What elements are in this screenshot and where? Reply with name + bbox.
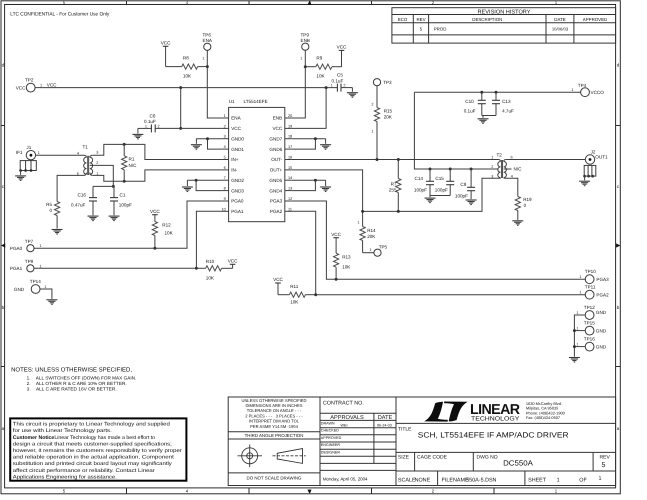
svg-text:R15: R15 xyxy=(384,109,393,114)
svg-text:1: 1 xyxy=(491,156,493,160)
svg-text:20: 20 xyxy=(288,114,292,118)
ground pins 14,13 GND5 GND4 xyxy=(292,179,331,192)
svg-text:R19: R19 xyxy=(523,197,532,202)
svg-text:DC550A: DC550A xyxy=(503,458,533,467)
power VCC at R13 xyxy=(331,232,341,238)
svg-text:GND4: GND4 xyxy=(269,188,282,193)
svg-text:1. ALL SWITCHES OFF (DOWN): 1. ALL SWITCHES OFF (DOWN) FOR MAX GAIN. xyxy=(27,375,137,380)
svg-text:DRAWN: DRAWN xyxy=(321,421,335,425)
resistor R8 xyxy=(166,56,208,79)
ground at C14 C15 xyxy=(425,196,436,203)
wire T2 pin6 to OUT1 xyxy=(506,159,586,161)
svg-text:ENB: ENB xyxy=(273,116,282,121)
svg-text:R10: R10 xyxy=(206,259,215,264)
U1 pin stubs left xyxy=(222,118,229,211)
ground pins 18,17 GND7 GND6 xyxy=(292,137,331,149)
middle col rows xyxy=(320,412,396,414)
svg-text:1: 1 xyxy=(576,343,578,347)
svg-text:b: b xyxy=(617,305,620,310)
svg-text:a: a xyxy=(2,426,5,431)
svg-text:R14: R14 xyxy=(367,228,376,233)
ground at TP14 xyxy=(40,289,57,304)
svg-text:16: 16 xyxy=(288,156,292,160)
svg-text:ENA: ENA xyxy=(231,116,241,121)
svg-text:1: 1 xyxy=(44,285,46,289)
svg-text:C15: C15 xyxy=(435,176,444,181)
wire PGA2 pin11 to TP11 xyxy=(292,211,586,294)
svg-text:ECO: ECO xyxy=(398,17,408,22)
svg-text:PROD: PROD xyxy=(434,27,447,32)
svg-text:1: 1 xyxy=(38,151,40,155)
svg-text:2: 2 xyxy=(432,489,435,494)
center arrows on borders xyxy=(1,243,5,247)
wire T1 pin6 to R5 xyxy=(57,175,83,201)
testpoint TP11 PGA2 xyxy=(579,285,609,299)
size row dividers xyxy=(414,452,416,471)
svg-text:LT5514EFE: LT5514EFE xyxy=(244,99,268,104)
svg-text:substitution and printed circu: substitution and printed circuit board l… xyxy=(13,461,172,467)
ground pins 3,4 GND0 GND1 xyxy=(191,137,222,149)
svg-text:2. ALL OTHER R & C ARE 10%: 2. ALL OTHER R & C ARE 10% OR BETTER. xyxy=(27,381,127,386)
svg-text:17: 17 xyxy=(288,145,292,149)
wire PGA3 pin12 to TP10 xyxy=(292,201,586,279)
svg-text:GND3: GND3 xyxy=(231,188,244,193)
svg-text:R11: R11 xyxy=(290,284,299,289)
svg-text:R7: R7 xyxy=(391,181,397,186)
node center tap to caps xyxy=(112,185,115,188)
svg-text:TITLE: TITLE xyxy=(398,426,412,432)
testpoint TP6 ENA xyxy=(202,33,213,61)
revision history table xyxy=(392,8,616,43)
svg-text:DO NOT SCALE DRAWING: DO NOT SCALE DRAWING xyxy=(247,476,302,481)
wire cap top rail xyxy=(93,185,114,187)
title block left column texts xyxy=(242,398,307,481)
U1 left pin numbers xyxy=(222,114,226,211)
ground at C16 xyxy=(88,216,99,221)
svg-text:12: 12 xyxy=(288,197,292,201)
svg-text:3: 3 xyxy=(224,135,226,139)
wire TP6 to U1 pin 1 xyxy=(207,50,221,118)
svg-text:TP6: TP6 xyxy=(203,33,212,38)
node TP16 junction xyxy=(573,345,576,348)
svg-text:1: 1 xyxy=(40,84,42,88)
testpoint TP8 PGA1 xyxy=(10,259,42,272)
svg-text:0.1uF: 0.1uF xyxy=(464,108,476,113)
svg-text:Fax: (408)434-0507: Fax: (408)434-0507 xyxy=(526,415,560,420)
resistor R1 xyxy=(122,144,137,181)
resistor R10 xyxy=(196,259,232,280)
svg-text:a: a xyxy=(617,426,620,431)
svg-text:0.1uF: 0.1uF xyxy=(332,78,344,83)
ground at C10 C13 xyxy=(478,116,489,124)
svg-text:19: 19 xyxy=(288,124,292,128)
svg-text:ENA: ENA xyxy=(203,38,213,43)
svg-text:13: 13 xyxy=(288,187,292,191)
wire VCC branch down to pin 2 xyxy=(180,88,182,129)
svg-text:3: 3 xyxy=(96,151,98,155)
ground at C6 xyxy=(132,128,143,139)
svg-text:15: 15 xyxy=(288,166,292,170)
wire J1 to T1 pin 4 xyxy=(36,154,84,156)
svg-text:R8: R8 xyxy=(183,56,189,61)
svg-text:REV: REV xyxy=(600,454,611,460)
svg-text:0.47uF: 0.47uF xyxy=(71,202,85,207)
svg-text:100pF: 100pF xyxy=(414,187,427,192)
testpoint TP3 xyxy=(373,79,392,86)
svg-text:SCH, LT5514EFE IF AMP/ADC DRIV: SCH, LT5514EFE IF AMP/ADC DRIVER xyxy=(418,431,569,440)
svg-text:10K: 10K xyxy=(290,300,299,305)
title block grid xyxy=(228,397,615,486)
svg-text:PGA2: PGA2 xyxy=(596,293,609,298)
svg-text:2: 2 xyxy=(371,103,373,107)
svg-text:PGA1: PGA1 xyxy=(231,209,244,214)
svg-text:0: 0 xyxy=(49,208,52,213)
svg-text:R13: R13 xyxy=(342,255,351,260)
node C10 on VCCO rail xyxy=(480,91,483,94)
svg-text:10K: 10K xyxy=(206,275,215,280)
svg-text:4.7uF: 4.7uF xyxy=(502,108,514,113)
wire C14 C15 bottoms xyxy=(430,195,450,197)
ground pins 7,8 GND2 GND3 xyxy=(182,179,222,192)
wire TP8 to U1 pin 10 xyxy=(34,211,222,268)
svg-text:PGA0: PGA0 xyxy=(10,246,23,251)
svg-text:LTC CONFIDENTIAL - For Custome: LTC CONFIDENTIAL - For Customer Use Only xyxy=(10,11,109,17)
U1 left pin labels xyxy=(231,116,244,214)
svg-text:TP10: TP10 xyxy=(585,269,596,274)
svg-text:PGA3: PGA3 xyxy=(596,277,609,282)
wire T1 pin3 to IN+ xyxy=(93,144,222,159)
svg-text:d: d xyxy=(617,63,620,68)
svg-text:1: 1 xyxy=(557,477,560,483)
svg-text:NONE: NONE xyxy=(415,477,431,483)
svg-text:N/C: N/C xyxy=(514,167,523,172)
svg-text:3. ALL C ARE RATED 16V OR B: 3. ALL C ARE RATED 16V OR BETTER. xyxy=(27,386,117,391)
ground at C9 xyxy=(466,200,477,205)
svg-text:3: 3 xyxy=(491,175,493,179)
svg-text:DESIGNER: DESIGNER xyxy=(321,450,341,454)
linear technology logo xyxy=(424,402,520,423)
svg-text:GND5: GND5 xyxy=(269,178,282,183)
svg-text:SIZE: SIZE xyxy=(398,454,410,460)
svg-text:10K: 10K xyxy=(183,74,192,79)
svg-text:2: 2 xyxy=(224,124,226,128)
testpoint TP15 GND xyxy=(576,321,606,335)
power VCC at R9 xyxy=(337,44,347,66)
svg-text:TP3: TP3 xyxy=(383,80,392,85)
svg-text:APPROVED: APPROVED xyxy=(321,436,342,440)
svg-text:5: 5 xyxy=(602,462,606,469)
svg-text:This circuit is proprietary to: This circuit is proprietary to Linear Te… xyxy=(13,422,170,428)
svg-text:1: 1 xyxy=(145,124,147,128)
connector J1 IF1 input xyxy=(16,145,37,172)
ground at C5 xyxy=(347,88,358,98)
svg-text:TP12: TP12 xyxy=(584,305,595,310)
svg-text:R12: R12 xyxy=(162,223,171,228)
svg-text:2: 2 xyxy=(491,165,493,169)
svg-text:TP7: TP7 xyxy=(25,239,34,244)
U1 right pin labels xyxy=(269,116,282,214)
U1 pin stubs right xyxy=(285,118,292,211)
svg-text:TP8: TP8 xyxy=(25,259,34,264)
ground at TP bus xyxy=(569,358,580,363)
svg-text:ENB: ENB xyxy=(301,38,310,43)
svg-text:N/C: N/C xyxy=(129,163,138,168)
resistor R11 xyxy=(278,283,316,305)
svg-text:T2: T2 xyxy=(497,153,503,158)
svg-text:GND2: GND2 xyxy=(231,178,244,183)
node TP15 junction xyxy=(573,329,576,332)
resistor R12 xyxy=(152,215,173,249)
resistor R14 xyxy=(357,211,376,252)
svg-text:5: 5 xyxy=(420,27,423,32)
wire T1 pin2 center tap down xyxy=(93,165,114,186)
zone letters left xyxy=(2,63,5,431)
svg-text:VCC: VCC xyxy=(16,85,26,90)
svg-text:however, it remains the custom: however, it remains the customers respon… xyxy=(13,448,182,454)
third angle projection symbol xyxy=(238,445,306,468)
svg-text:and reliable operation in the: and reliable operation in the actual app… xyxy=(13,455,175,461)
svg-text:THIRD ANGLE PROJECTION: THIRD ANGLE PROJECTION xyxy=(245,433,304,438)
svg-text:R9: R9 xyxy=(316,56,322,61)
node R11 on PGA2 line xyxy=(314,293,317,296)
svg-text:14: 14 xyxy=(288,176,292,180)
svg-text:DATE: DATE xyxy=(554,17,565,22)
left col rows xyxy=(228,431,320,433)
svg-text:WEI: WEI xyxy=(341,424,348,428)
node R7 bottom on lower rail xyxy=(397,210,400,213)
svg-text:VCC: VCC xyxy=(228,259,238,264)
svg-text:GND: GND xyxy=(596,344,607,349)
ground at J1 xyxy=(15,171,26,181)
U1 right pin numbers xyxy=(288,114,292,211)
node R8 to ENA junction xyxy=(206,65,209,68)
svg-text:DATE: DATE xyxy=(378,415,393,421)
svg-text:VCC: VCC xyxy=(337,44,347,49)
svg-text:1: 1 xyxy=(40,264,42,268)
ground at R19 xyxy=(512,221,523,226)
svg-text:TP2: TP2 xyxy=(25,78,34,83)
svg-text:VCC: VCC xyxy=(272,126,282,131)
svg-text:OUT+: OUT+ xyxy=(270,168,283,173)
svg-text:20K: 20K xyxy=(384,115,393,120)
capacitor C10 xyxy=(464,92,486,115)
svg-text:b: b xyxy=(2,305,5,310)
svg-text:10K: 10K xyxy=(342,265,351,270)
svg-text:Customer NoticeLinear Technolo: Customer NoticeLinear Technology has mad… xyxy=(13,435,155,441)
testpoint TP7 PGA0 xyxy=(10,239,42,252)
op-amp U1 LT5514EFE body xyxy=(229,99,285,222)
svg-text:1: 1 xyxy=(357,221,359,225)
svg-text:Applications Engineering for a: Applications Engineering for assistance. xyxy=(13,474,117,480)
svg-text:OF: OF xyxy=(579,477,587,483)
power VCC at R12 xyxy=(150,209,160,215)
svg-text:PER ASME Y14.5M -1994: PER ASME Y14.5M -1994 xyxy=(250,424,298,429)
ground at C1 xyxy=(109,216,120,221)
svg-text:APPROVED: APPROVED xyxy=(583,17,607,22)
ground at R5 xyxy=(52,230,63,235)
svg-text:1: 1 xyxy=(40,244,42,248)
svg-text:11: 11 xyxy=(288,207,292,211)
resistor R15 xyxy=(371,86,392,160)
svg-text:NOTES: UNLESS OTHERWISE SPECIF: NOTES: UNLESS OTHERWISE SPECIFIED, xyxy=(11,367,132,374)
capacitor C5 xyxy=(331,73,353,92)
svg-text:SCALE: SCALE xyxy=(398,477,416,483)
svg-text:0: 0 xyxy=(524,203,527,208)
svg-text:7: 7 xyxy=(224,176,226,180)
svg-text:255: 255 xyxy=(389,187,397,192)
svg-text:TP4: TP4 xyxy=(578,83,587,88)
wire VCC branch down to pin 19 xyxy=(292,88,326,129)
svg-text:1: 1 xyxy=(571,88,573,92)
svg-text:TECHNOLOGY: TECHNOLOGY xyxy=(471,415,519,422)
capacitor C15 xyxy=(435,169,454,196)
wire OUT+ pin15 jog down xyxy=(292,170,363,212)
svg-text:VCC: VCC xyxy=(331,232,341,237)
wire VCC rail xyxy=(35,87,337,89)
svg-text:C9: C9 xyxy=(460,182,466,187)
svg-text:IF1: IF1 xyxy=(16,150,23,155)
zone numbers bottom xyxy=(63,489,558,494)
svg-text:C14: C14 xyxy=(415,176,424,181)
svg-text:Monday, April 05, 2004: Monday, April 05, 2004 xyxy=(323,477,368,482)
wire TP9 to U1 pin 20 xyxy=(292,50,306,118)
svg-text:U1: U1 xyxy=(229,99,235,104)
svg-text:GND6: GND6 xyxy=(269,147,282,152)
connector J2 OUT1 xyxy=(583,150,608,178)
power VCC at R10 xyxy=(228,259,238,269)
svg-text:5: 5 xyxy=(224,156,226,160)
svg-text:10K: 10K xyxy=(316,74,325,79)
svg-text:TP5: TP5 xyxy=(379,244,388,249)
node R1 bottom xyxy=(123,180,126,183)
svg-text:TP16: TP16 xyxy=(584,337,595,342)
svg-text:CONTRACT NO.: CONTRACT NO. xyxy=(323,401,364,407)
wire T2 pin4 to R19 xyxy=(506,178,518,196)
svg-text:PGA2: PGA2 xyxy=(270,209,283,214)
svg-text:C13: C13 xyxy=(502,99,511,104)
svg-text:APPROVALS: APPROVALS xyxy=(330,415,364,421)
svg-text:FILENAME: FILENAME xyxy=(442,477,469,483)
svg-text:1: 1 xyxy=(369,248,371,252)
svg-text:1: 1 xyxy=(202,57,204,61)
svg-text:C10: C10 xyxy=(465,99,474,104)
svg-text:SHEET: SHEET xyxy=(528,477,547,483)
svg-text:VCCO: VCCO xyxy=(591,90,605,95)
svg-text:10/06/03: 10/06/03 xyxy=(552,27,569,32)
testpoint TP4 VCCO xyxy=(571,83,604,96)
resistor R9 xyxy=(305,56,341,79)
svg-text:GND7: GND7 xyxy=(269,136,282,141)
svg-text:8: 8 xyxy=(224,187,226,191)
svg-text:affect circuit performance or: affect circuit performance or reliabilit… xyxy=(13,468,155,474)
wire GND testpoint bus xyxy=(574,315,585,357)
svg-text:4: 4 xyxy=(77,151,79,155)
svg-text:1: 1 xyxy=(555,489,558,494)
svg-text:VCC: VCC xyxy=(231,126,241,131)
svg-text:DWG NO: DWG NO xyxy=(477,454,498,460)
svg-text:06-24-03: 06-24-03 xyxy=(377,424,392,428)
svg-text:TP15: TP15 xyxy=(584,321,595,326)
svg-text:1: 1 xyxy=(371,130,373,134)
wire OUT- rail pin16 to T2 xyxy=(292,159,499,161)
svg-text:1: 1 xyxy=(300,57,302,61)
svg-text:TP14: TP14 xyxy=(30,279,41,284)
resistor R7 xyxy=(389,160,401,212)
testpoint TP14 GND xyxy=(14,279,46,293)
svg-text:VCC: VCC xyxy=(161,40,171,45)
node R7 top on OUT- rail xyxy=(397,158,400,161)
svg-text:C16: C16 xyxy=(78,192,87,197)
node R9 to ENB junction xyxy=(304,65,307,68)
svg-text:REV: REV xyxy=(416,17,425,22)
svg-text:4: 4 xyxy=(186,489,189,494)
power VCC at R11 xyxy=(273,277,283,283)
svg-text:VCC: VCC xyxy=(273,277,283,282)
transformer T2 xyxy=(491,153,522,179)
svg-text:1: 1 xyxy=(576,327,578,331)
svg-text:GND: GND xyxy=(14,287,25,292)
svg-text:REVISION HISTORY: REVISION HISTORY xyxy=(478,9,531,15)
svg-text:c: c xyxy=(617,184,620,189)
svg-text:GND1: GND1 xyxy=(231,147,244,152)
node VCC rail to C6 junction xyxy=(179,86,182,89)
svg-text:CHECKED: CHECKED xyxy=(321,429,339,433)
svg-text:T1: T1 xyxy=(83,145,89,150)
svg-text:ENGINEER: ENGINEER xyxy=(321,443,341,447)
svg-text:VCC: VCC xyxy=(150,209,160,214)
svg-text:4: 4 xyxy=(224,145,226,149)
svg-text:1: 1 xyxy=(576,311,578,315)
svg-text:for use with Linear Technology: for use with Linear Technology parts. xyxy=(13,428,112,434)
svg-text:GND: GND xyxy=(596,310,607,315)
testpoint TP12 GND xyxy=(576,305,606,319)
svg-text:2: 2 xyxy=(96,161,98,165)
svg-text:20K: 20K xyxy=(367,234,376,239)
svg-text:1: 1 xyxy=(224,114,226,118)
testpoint TP9 ENB xyxy=(300,33,310,61)
capacitor C14 xyxy=(414,169,434,196)
wire VCCO rail down to T2 pin 2 xyxy=(414,92,498,169)
svg-text:100pF: 100pF xyxy=(435,187,448,192)
svg-text:GND: GND xyxy=(596,328,607,333)
svg-text:1: 1 xyxy=(599,476,602,482)
wire T1 pin1 to IN- xyxy=(93,170,222,181)
capacitor C1 xyxy=(110,186,132,215)
capacitor C16 xyxy=(71,186,97,215)
proprietary notice box xyxy=(10,418,186,480)
testpoint TP5 xyxy=(363,244,388,256)
capacitor C9 xyxy=(455,169,475,199)
svg-text:C1: C1 xyxy=(120,192,126,197)
svg-text:1: 1 xyxy=(331,83,333,87)
node R10 junction on PGA1 line xyxy=(195,267,198,270)
wire pin 2 VCC line xyxy=(155,127,221,129)
svg-text:R5: R5 xyxy=(46,202,52,207)
wire C10 C13 bottoms xyxy=(482,115,496,117)
node R12 on PGA0 line xyxy=(153,247,156,250)
svg-text:R1: R1 xyxy=(129,156,135,161)
svg-text:1: 1 xyxy=(579,275,581,279)
svg-text:5: 5 xyxy=(63,489,66,494)
wire TP7 to U1 pin 9 xyxy=(34,201,222,248)
svg-text:C5: C5 xyxy=(337,73,343,78)
node C13 on VCCO rail xyxy=(495,91,498,94)
svg-text:PGA3: PGA3 xyxy=(270,199,283,204)
node R14 on lower rail xyxy=(361,210,364,213)
svg-text:DESCRIPTION: DESCRIPTION xyxy=(472,17,502,22)
svg-text:J1: J1 xyxy=(26,145,31,150)
node R15 on OUT- rail xyxy=(376,158,379,161)
